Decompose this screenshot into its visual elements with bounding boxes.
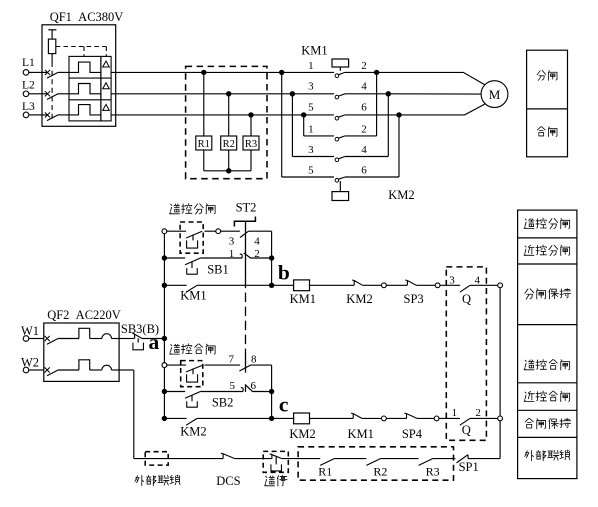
auxiliary contact KM2 (seal-in) [186, 418, 197, 425]
node L1-R1 [201, 70, 206, 75]
KM1 main contact 5-6 [335, 116, 339, 120]
node L2 feed KM [290, 91, 295, 96]
cell yao-kong-fen-zha [524, 219, 534, 229]
contact R2 [366, 459, 380, 466]
contactor KM1 operator box [332, 59, 349, 67]
wire 7-8 to corner [250, 364, 271, 366]
pushbutton SB2 [185, 392, 200, 399]
indicator box fen-zha/he-zha [527, 50, 568, 157]
terminal b row 1 [382, 283, 387, 288]
contactor KM2 operator box [332, 192, 349, 201]
cell yao-kong-he-zha [524, 360, 534, 370]
wire DCS out [235, 458, 272, 460]
cell jin-kong-fen-zha [524, 245, 534, 255]
wire to R box [282, 458, 320, 460]
wire c to coil [272, 417, 294, 419]
wire Q to right term [470, 284, 498, 286]
svg-text:R3: R3 [245, 139, 257, 150]
ST2 actuator bar [234, 217, 255, 227]
svg-text:2: 2 [361, 60, 367, 72]
wire KM2 5-6 row [282, 176, 334, 178]
ST2 contact 5-6 [241, 385, 253, 391]
wire coil KM1 out [310, 284, 355, 286]
svg-text:6: 6 [361, 165, 367, 177]
terminal c row right [498, 416, 503, 421]
wire KM1 5-6 to node [345, 114, 399, 116]
svg-text:SB2: SB2 [212, 395, 234, 409]
node R bus [226, 168, 231, 173]
QF2 pole 2 switch contact [45, 367, 50, 372]
terminal c row 2 [434, 416, 439, 421]
QF1 shunt trip coil [48, 29, 56, 31]
node bus-SB2 [162, 389, 167, 394]
wire W2 down riser [133, 370, 135, 459]
wire to SP3 [386, 284, 407, 286]
svg-text:KM1: KM1 [301, 43, 327, 57]
node ST2 col bottom [269, 389, 274, 394]
svg-text:1: 1 [308, 60, 314, 72]
terminal L3 [23, 112, 29, 118]
svg-text:Q: Q [462, 292, 471, 306]
svg-text:KM1: KM1 [290, 292, 316, 306]
label yao-kong-he-zha [170, 344, 180, 354]
svg-text:3: 3 [449, 275, 455, 287]
svg-text:6: 6 [250, 380, 256, 392]
svg-text:L3: L3 [22, 100, 35, 113]
node a junction [162, 336, 167, 341]
terminal W1 [23, 336, 29, 342]
wire SB2 row right [200, 391, 243, 393]
QF1 pole 1 magnetic release triangle [103, 61, 110, 67]
node L2-R2 [226, 91, 231, 96]
wire KM2 1-2 row [304, 135, 334, 137]
wire W1 to SB3 [119, 338, 135, 340]
node bus-b-row [162, 283, 167, 288]
terminal L2 [23, 91, 29, 97]
KM1 main contact 1-2 [335, 74, 339, 78]
remote-close row terminal [162, 363, 167, 368]
right bus to bottom rail [499, 421, 501, 459]
coil KM2 [294, 413, 310, 424]
wire KM2 1-2 right riser [345, 135, 377, 137]
wire to term [363, 284, 382, 286]
QF2 pole 1 thermal element [79, 328, 90, 338]
wire Q to right term c [470, 417, 498, 419]
KM2 main contact 1-2 [335, 137, 339, 141]
svg-text:b: b [278, 260, 290, 284]
coil KM1 [294, 280, 310, 291]
svg-text:DCS: DCS [216, 474, 240, 488]
svg-text:KM1: KM1 [180, 289, 206, 303]
terminal c row 1 [382, 416, 387, 421]
QF1 trip linkage (dashed) [51, 62, 53, 119]
wire KM2 3-4 row [292, 156, 334, 158]
svg-text:1: 1 [308, 123, 314, 135]
resistor R2 [228, 94, 230, 136]
ST2 contact 7-8 [239, 365, 250, 371]
ST2 contact 1-2 [240, 253, 251, 258]
svg-text:SB3(B): SB3(B) [121, 322, 159, 336]
wire remote-close row [167, 364, 186, 366]
circuit breaker QF2 enclosure [44, 323, 119, 381]
remote open pushbutton dashed box [180, 222, 203, 253]
KM2 main contact 3-4 [335, 158, 339, 162]
QF1 pole 3 switch contact [42, 114, 48, 116]
svg-text:KM1: KM1 [347, 427, 373, 441]
wire KM2 5-6 right riser [345, 176, 399, 178]
wire KM1 row right [197, 284, 272, 286]
remote close pushbutton dashed box [181, 361, 203, 387]
wire KM2 3-4 left riser [291, 94, 293, 157]
QF1 pole 3 magnetic release triangle [103, 104, 110, 110]
auxiliary contact KM1 (seal-in) [186, 285, 197, 292]
svg-text:4: 4 [254, 236, 260, 248]
svg-text:7: 7 [229, 353, 235, 365]
svg-text:3: 3 [308, 144, 314, 156]
wire KM2 5-6 left riser [281, 72, 283, 177]
wire KM2 3-4 right riser [345, 156, 388, 158]
svg-text:KM2: KM2 [346, 292, 372, 306]
terminal L1 [23, 70, 29, 76]
svg-text:4: 4 [475, 274, 481, 286]
svg-text:4: 4 [361, 81, 367, 93]
wire SP1 to right riser [468, 458, 500, 460]
terminal W2 [23, 367, 29, 373]
node motor T3 [396, 112, 401, 117]
node L3-R3 [248, 112, 253, 117]
remote-open row terminal [162, 229, 167, 234]
cell fen-zha-bao-chi [525, 289, 534, 299]
wire ST2 col 2 [271, 392, 273, 419]
breaker aux dashed box Q [446, 267, 486, 440]
remote open pushbutton SB(yao) [186, 231, 202, 238]
svg-text:L2: L2 [22, 79, 35, 92]
terminal b row right [498, 283, 503, 288]
wire motor lead bottom [399, 104, 485, 115]
circuit breaker QF1 enclosure [42, 25, 116, 127]
svg-text:8: 8 [251, 353, 257, 365]
node L3 feed KM [301, 112, 306, 117]
pushbutton SB1 [185, 258, 200, 265]
svg-text:3: 3 [308, 81, 314, 93]
wire R1-R2 [334, 458, 366, 460]
node bus-SB1 [162, 255, 167, 260]
svg-text:W1: W1 [21, 324, 39, 338]
contact R1 [320, 459, 334, 466]
wire KM2 1-2 left riser [303, 115, 305, 136]
svg-text:ST2: ST2 [236, 201, 257, 215]
label wai-bu-lian-suo bottom [135, 475, 144, 485]
QF1 pole 2 thermal element [69, 84, 101, 94]
svg-text:SB1: SB1 [207, 262, 229, 276]
wire KM1 row left [164, 284, 186, 286]
ST2 contact 3-4 [240, 231, 249, 237]
wire to ST2 7-8 [205, 364, 241, 366]
contact SP3 (NC) [405, 280, 416, 285]
interlock contact KM2 (NC) [352, 280, 363, 285]
svg-text:5: 5 [308, 165, 314, 177]
node bus-c-row [162, 416, 167, 421]
node motor T1 [374, 70, 379, 75]
motor M [481, 81, 508, 108]
function table column [518, 210, 577, 479]
ST2 linkage [245, 221, 247, 278]
wire coil KM2 out [310, 417, 354, 419]
svg-text:3: 3 [229, 236, 235, 248]
wire into Q box bottom [439, 417, 460, 419]
svg-text:KM2: KM2 [180, 425, 206, 439]
external interlock dashed box [145, 452, 168, 465]
QF1 dashed link to overload block [56, 47, 107, 57]
QF1 pole 3 thermal element [69, 105, 101, 115]
svg-text:KM2: KM2 [388, 188, 414, 202]
svg-text:1: 1 [452, 407, 458, 419]
Q aux contact 1-2 [460, 418, 470, 425]
svg-text:KM2: KM2 [289, 427, 315, 441]
wire L1 bus [111, 71, 334, 73]
svg-text:L1: L1 [22, 56, 35, 69]
QF2 pole 2 magnetic element [102, 365, 112, 370]
svg-text:Q: Q [462, 423, 471, 437]
resistor common bus wire [204, 170, 251, 172]
svg-text:2: 2 [475, 407, 481, 419]
node motor T2 [386, 91, 391, 96]
wire L2 bus [111, 93, 334, 95]
wire b to coil [272, 284, 294, 286]
wire KM1 1-2 to node [345, 71, 377, 73]
remote close pushbutton [186, 365, 203, 372]
wire L3 bus [111, 114, 334, 116]
wire R2-R3 [380, 458, 418, 460]
svg-text:M: M [489, 87, 501, 102]
svg-text:QF2 AC220V: QF2 AC220V [47, 308, 121, 322]
KM1 main contact 3-4 [335, 95, 339, 99]
svg-text:R1: R1 [198, 139, 210, 150]
wire KM2 row left [164, 417, 186, 419]
svg-text:4: 4 [361, 144, 367, 156]
terminal mid remote-open row [216, 229, 221, 234]
terminal b row 2 [435, 283, 440, 288]
svg-text:2: 2 [361, 123, 367, 135]
label yao-kong-fen-zha [170, 204, 180, 214]
QF2 pole 1 magnetic element [102, 334, 112, 339]
svg-text:SP1: SP1 [459, 460, 479, 474]
wire motor lead top [377, 72, 485, 85]
QF1 pole 2 switch contact [42, 93, 48, 95]
svg-text:c: c [279, 393, 289, 417]
QF1 pole 1 thermal element [69, 62, 101, 72]
svg-text:6: 6 [361, 101, 367, 113]
svg-text:R3: R3 [426, 464, 440, 478]
stop pushbutton SB3 (NC) [132, 333, 142, 338]
node b junction [269, 283, 274, 288]
svg-text:W2: W2 [21, 355, 39, 369]
wire motor lead mid [388, 93, 481, 95]
left control bus wire [163, 234, 165, 419]
KM2 main contact 5-6 [335, 179, 339, 183]
svg-text:R1: R1 [318, 464, 332, 478]
svg-text:5: 5 [308, 101, 314, 113]
svg-text:R2: R2 [223, 139, 235, 150]
svg-text:QF1 AC380V: QF1 AC380V [50, 10, 124, 24]
wire SB2 row left [164, 391, 185, 393]
svg-text:R2: R2 [373, 464, 387, 478]
wire SP4 out [417, 417, 434, 419]
QF1 thermal overload block [69, 56, 101, 121]
wire R3-SP1 [433, 458, 456, 460]
wire to ST2 3-4 [205, 230, 216, 232]
label fen-zha [537, 70, 546, 80]
wire SB1 row [200, 257, 242, 259]
contact DCS (NC) [221, 453, 235, 458]
node L1 feed KM [279, 70, 284, 75]
interlock contact KM1 (NC) [351, 413, 362, 418]
node ST2 right col top [269, 255, 274, 260]
contact SP1 [457, 455, 469, 463]
svg-text:SP3: SP3 [404, 292, 424, 306]
wire KM1 3-4 to node [345, 93, 388, 95]
wire SP3 out [416, 284, 435, 286]
resistor R1 [203, 72, 205, 136]
resistor group dashed box [186, 66, 267, 178]
right hold bus wire [499, 288, 501, 416]
Q aux contact 3-4 [460, 285, 470, 292]
label he-zha [537, 127, 545, 136]
contact SP4 (NC) [404, 413, 417, 418]
label yao-ting [265, 476, 275, 486]
R contacts dashed box [298, 447, 453, 480]
cell he-zha-bao-chi [525, 418, 533, 428]
wire ST2 col [271, 258, 273, 285]
wire into Q box top [440, 284, 460, 286]
cell jin-kong-he-zha [524, 391, 534, 401]
svg-text:5: 5 [229, 380, 235, 392]
wire to term c1 [362, 417, 382, 419]
resistor R3 [250, 115, 252, 136]
cell wai-bu-lian-suo [525, 450, 534, 460]
node c junction [269, 416, 274, 421]
wire to SP4 [386, 417, 406, 419]
svg-text:SP4: SP4 [402, 427, 423, 441]
remote stop pushbutton (NC) [270, 454, 282, 459]
remote stop dashed box [263, 451, 288, 472]
bottom rail wire [134, 458, 223, 460]
wire W2 to corner [119, 369, 134, 371]
wire SB3 to node a [142, 338, 164, 340]
QF2 pole 1 switch contact [45, 336, 50, 341]
QF2 pole 2 thermal element [79, 360, 90, 370]
wire remote-open row [167, 230, 186, 232]
wire 3-4 to corner [248, 230, 271, 232]
wire KM2 row right [197, 417, 272, 419]
QF1 pole 2 magnetic release triangle [103, 83, 110, 89]
wire SB1 row left [164, 257, 185, 259]
contact R3 [419, 459, 433, 466]
QF1 pole 1 switch contact [42, 71, 48, 73]
